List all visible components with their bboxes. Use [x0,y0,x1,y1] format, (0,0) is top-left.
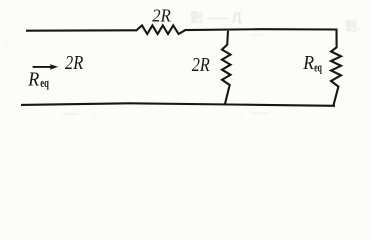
svg-text:2R: 2R [152,6,171,26]
svg-text:R: R [27,69,39,91]
svg-text:eq: eq [314,60,322,75]
svg-text:剄.: 剄. [345,19,360,33]
svg-text:2R: 2R [65,53,83,74]
svg-text:eq: eq [40,75,49,90]
svg-text:2R: 2R [192,54,210,76]
svg-text:˙: ˙ [300,84,303,94]
svg-text:R: R [302,52,314,74]
svg-text:.: . [0,96,3,107]
svg-text:˙:: ˙: [2,40,8,51]
svg-text:. ˙ ⸺ ˙: . ˙ ⸺ ˙ [240,108,275,119]
svg-text:⸺ . ˙ .: ⸺ . ˙ . [62,109,96,119]
svg-text:剄 ⸺ Ԯׁ: 剄 ⸺ Ԯׁ [190,10,242,25]
svg-text:⸺: ⸺ [250,30,265,40]
